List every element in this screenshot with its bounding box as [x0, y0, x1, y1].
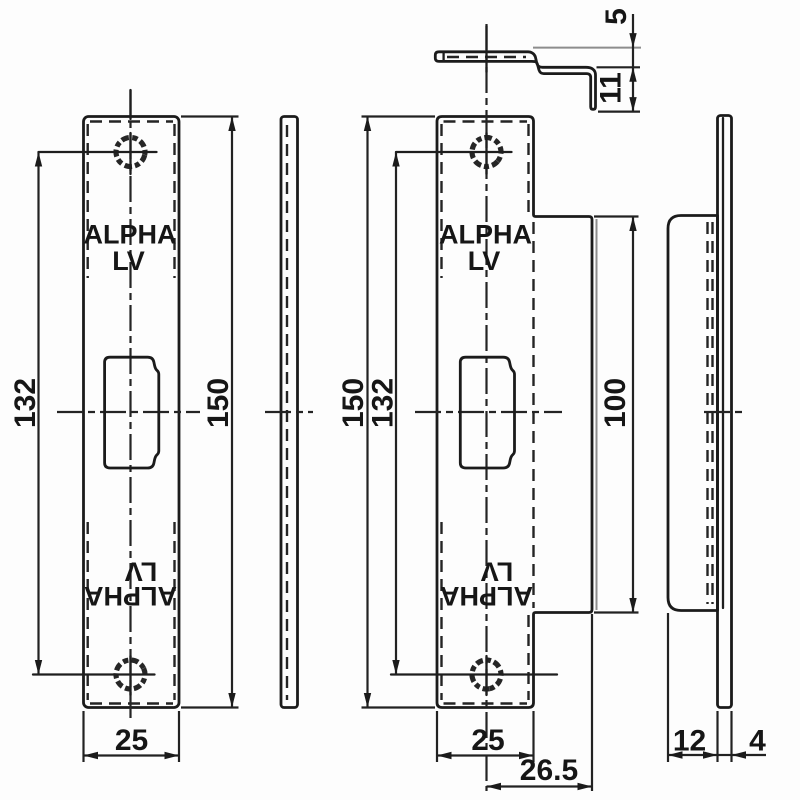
view3 hidden bend line 1 — [706, 222, 708, 604]
view2 100 bottom extension — [594, 611, 639, 613]
view2 26.5 right extension — [591, 614, 593, 791]
view3 dim line 4 tail — [732, 754, 767, 756]
view1b horizontal centerline tick — [265, 411, 313, 413]
view1 hidden inner rect upper-right — [173, 124, 175, 278]
view2 dim line 132 — [395, 152, 397, 675]
view2 25 left extension — [436, 711, 438, 762]
view3 4 arrow pointing left — [732, 751, 747, 758]
view2 100 arrow down — [629, 598, 636, 613]
svg-text:132: 132 — [9, 378, 42, 428]
view3 dim line 12 — [668, 754, 718, 756]
centerline solid through bracket — [485, 26, 487, 72]
view1 hidden inner rect top — [90, 120, 173, 122]
bracket top surface extension (light) — [533, 47, 641, 49]
view2 hidden inner rect upper-right — [527, 124, 529, 213]
view1 centerline solid over bottom hole — [129, 656, 131, 695]
view2 dim line 26.5 — [487, 785, 593, 787]
view2 plate and lip outline — [437, 117, 592, 708]
svg-text:150: 150 — [337, 378, 370, 428]
view3 hidden bend line 2 — [711, 222, 713, 604]
view2 hidden inner rect top — [444, 120, 528, 122]
view1 150 bottom extension — [181, 706, 239, 708]
view2 26.5 arrow left — [487, 783, 502, 790]
view1 dim line 150 — [231, 117, 233, 708]
view2 latch cutout — [460, 357, 514, 468]
view2 150 bottom extension — [362, 706, 436, 708]
view2 lip bend line (light) — [596, 219, 598, 610]
svg-text:25: 25 — [115, 724, 148, 757]
view2 hidden inner rect lower-right — [527, 615, 529, 700]
view3 12 arrow left — [668, 751, 683, 758]
view1 bottom hole crosshair horizontal — [33, 673, 155, 675]
view1 top hole crosshair horizontal — [39, 151, 157, 153]
arrow down tip at bracket bottom — [629, 97, 636, 112]
view3 dim line across plate — [718, 754, 732, 756]
view2 26.5 arrow right — [578, 783, 593, 790]
view2 top screw hole — [466, 132, 507, 173]
bracket outline (bent strike lip, side profile) — [435, 52, 595, 110]
view1 plate outline — [84, 117, 180, 708]
svg-text:25: 25 — [471, 724, 504, 757]
view2 25 arrow right — [519, 752, 534, 759]
svg-text:5: 5 — [600, 8, 633, 25]
view3 thin plate outline — [718, 116, 732, 708]
view2 horizontal centerline — [415, 411, 562, 413]
view3 horizontal centerline tick — [704, 411, 747, 413]
view2 hidden plate edge behind lip — [532, 222, 534, 608]
view2 100 arrow up — [629, 217, 636, 232]
view2 25 arrow left — [437, 752, 452, 759]
view2 hidden inner rect upper-left — [440, 124, 442, 278]
view2 hidden inner rect lower-left — [440, 522, 442, 700]
view3 12 right extension — [716, 711, 718, 762]
svg-text:100: 100 — [599, 378, 632, 428]
arrow up tip at step surface — [629, 67, 636, 82]
view1 132 arrow down — [35, 660, 42, 675]
view1 25 arrow right — [165, 752, 180, 759]
view2 centerline solid over bottom hole — [485, 656, 487, 695]
view2 dim line 100 — [632, 217, 634, 613]
view1 horizontal centerline — [57, 411, 200, 413]
view1 latch cutout — [105, 357, 159, 468]
view2 132 arrow down — [392, 660, 399, 675]
view1 132 arrow up — [35, 152, 42, 167]
view2 25 right extension — [532, 711, 534, 762]
view2 vertical centerline (shared with bracket) — [485, 24, 487, 791]
view3 12 arrow right — [703, 751, 718, 758]
view2 150 arrow down — [364, 693, 371, 708]
svg-text:4: 4 — [749, 725, 766, 758]
view2 hidden inner rect bottom — [444, 702, 528, 704]
view2 bottom screw hole — [469, 657, 503, 691]
view1 dim line 132 — [37, 152, 39, 675]
svg-text:LV: LV — [481, 557, 514, 587]
extension line step surface — [597, 66, 641, 68]
view1b thin plate outline — [281, 117, 298, 708]
view1 hidden inner rect upper-left — [86, 124, 88, 278]
view1 25 arrow left — [84, 752, 99, 759]
view2 150 top extension — [362, 115, 436, 117]
view3 strike box outline — [668, 216, 718, 611]
view1 25 left extension — [82, 711, 84, 762]
view1 centerline solid over top hole — [129, 90, 131, 119]
view2 centerline solid over top hole — [485, 133, 487, 174]
view3 12 left extension — [667, 613, 669, 762]
view1 150 arrow down — [228, 693, 235, 708]
arrow down tip at top surface — [629, 33, 636, 48]
svg-text:12: 12 — [673, 725, 706, 758]
view2 top hole crosshair horizontal — [396, 151, 512, 153]
view1 vertical centerline — [129, 90, 131, 719]
svg-text:LV: LV — [468, 246, 501, 276]
view1b hidden face line — [286, 125, 288, 700]
svg-text:LV: LV — [125, 557, 158, 587]
view2 dim line 150 — [366, 117, 368, 708]
svg-text:132: 132 — [367, 378, 400, 428]
dimension line 5 / 11 — [632, 14, 634, 112]
svg-text:11: 11 — [595, 72, 628, 104]
bracket hidden line inside strip — [447, 56, 526, 58]
view1 hidden inner rect lower-right — [173, 522, 175, 700]
view1 bottom screw hole — [111, 655, 150, 694]
view1 hidden inner rect lower-left — [86, 522, 88, 700]
svg-text:LV: LV — [112, 246, 145, 276]
view2 dim line 25 — [437, 754, 534, 756]
svg-text:150: 150 — [202, 378, 235, 428]
view1 top screw hole — [113, 135, 147, 169]
bracket left cap inner edge — [442, 53, 444, 61]
view3 plate face edge line — [722, 118, 724, 608]
view1 25 right extension — [178, 711, 180, 762]
view2 bottom hole crosshair horizontal — [391, 673, 557, 675]
view2 132 arrow up — [392, 152, 399, 167]
view2 100 top extension — [594, 215, 639, 217]
view1 150 arrow up — [228, 117, 235, 132]
view3 4 right extension — [730, 711, 732, 762]
extension line bracket bottom — [598, 110, 640, 112]
view1 150 top extension — [181, 115, 239, 117]
view1 hidden inner rect bottom — [90, 702, 173, 704]
view2 150 arrow up — [364, 117, 371, 132]
view1 dim line 25 — [84, 754, 180, 756]
svg-text:26.5: 26.5 — [520, 754, 578, 787]
